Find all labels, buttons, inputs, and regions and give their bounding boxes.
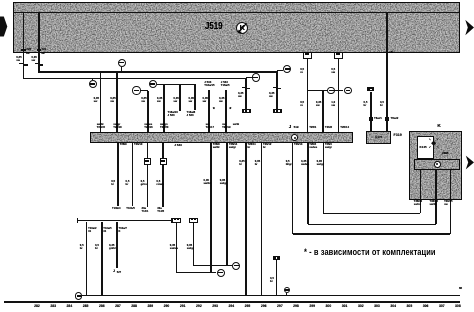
splice A186	[327, 87, 335, 95]
wire color label	[41, 53, 44, 56]
connector T6w/2	[385, 117, 389, 121]
wire from J519 to bus A	[38, 53, 40, 72]
wire T26 to connector	[162, 143, 164, 158]
pin label T6w/1	[374, 117, 382, 120]
splice B136	[344, 87, 352, 95]
fuse SB9	[334, 52, 343, 59]
wire cluster T36/12	[420, 170, 422, 214]
stub to splice B397	[121, 67, 122, 72]
pin label T26/19	[222, 124, 230, 130]
bus wire A (15a)	[38, 71, 278, 73]
label T16a/10 J533	[168, 111, 178, 117]
wire gauge label	[203, 97, 208, 103]
wire gauge label	[141, 97, 146, 103]
label J285	[442, 152, 449, 155]
wire gauge label	[286, 160, 292, 166]
wire to T26/2	[322, 90, 324, 132]
wire T10a/2 to ground	[86, 222, 88, 296]
pin label T26/10	[134, 144, 142, 147]
footnote	[304, 247, 436, 257]
wire T26/4 down	[307, 143, 309, 224]
pin label T26/9	[120, 144, 127, 147]
asterisk	[229, 108, 231, 114]
bracket label	[174, 218, 176, 221]
wire gauge label	[110, 97, 115, 103]
warning lamp K145 box	[417, 136, 434, 159]
wire gauge label	[219, 97, 224, 103]
wire A176 to J533	[179, 84, 181, 110]
splice B406	[89, 80, 97, 88]
wire gauge label	[300, 101, 304, 107]
wire J533 to T26/19	[225, 90, 227, 133]
wire gauge label	[204, 179, 211, 185]
pin label T26/18	[113, 124, 121, 130]
terminal label 1N	[389, 51, 393, 54]
wire gauge label	[270, 277, 274, 283]
wire gauge label	[156, 180, 163, 186]
wire T10a/7 to J527	[116, 222, 118, 268]
wire to T26/14	[338, 90, 340, 132]
wire gauge label	[187, 244, 194, 250]
connector C2	[172, 218, 181, 223]
wire J533 to T26/17	[208, 90, 210, 133]
splice B397 at bus A end	[283, 65, 291, 73]
wire to splice B390	[194, 265, 233, 266]
wire cluster T36/15	[450, 170, 452, 234]
wire down	[162, 165, 164, 207]
wire gauge label	[380, 101, 384, 107]
label T16a/8 J533	[187, 111, 196, 117]
pin label T26/14	[229, 144, 237, 150]
ground connection 44	[284, 287, 291, 294]
splice A170	[132, 86, 140, 94]
asterisk	[213, 108, 215, 114]
wire gauge label	[141, 180, 147, 186]
wire bus B end down	[245, 78, 247, 109]
connector on wire	[242, 87, 246, 88]
wire from A176	[157, 84, 196, 85]
wire gauge label	[300, 68, 304, 74]
current track numbers	[0, 304, 474, 309]
wire fuse SB9 down	[338, 59, 340, 91]
wire gauge label	[238, 92, 243, 98]
wire gauge label	[255, 160, 260, 166]
ground stub	[286, 293, 287, 295]
wire to splice B383	[176, 223, 178, 273]
connector T2	[273, 256, 281, 260]
connector T10k	[273, 109, 282, 113]
wire T26 to connector	[147, 143, 149, 158]
wire to cluster T36/12	[323, 213, 420, 215]
wire gauge label	[239, 160, 244, 166]
connector on wire	[35, 63, 39, 64]
wire gauge label	[269, 92, 274, 98]
connector C15	[160, 158, 168, 165]
wire T26/11 to ground	[245, 143, 247, 296]
wire gauge label	[301, 160, 309, 166]
wire to ground	[276, 260, 278, 296]
wire to cluster T36/15	[293, 233, 451, 235]
instrument cluster K box	[409, 131, 462, 200]
stub to splice	[246, 77, 252, 78]
wire bus A end down	[276, 72, 278, 109]
pin label T26/16	[144, 124, 152, 130]
wire to splice B383	[177, 272, 217, 273]
wire gauge label	[157, 97, 162, 103]
pin label T10a/5	[103, 228, 111, 234]
wire gauge label	[80, 244, 84, 250]
wire T26/9 down	[117, 143, 119, 206]
label 30a T14/5	[157, 208, 164, 214]
wire gauge label	[331, 68, 335, 74]
ground wire label	[459, 287, 462, 290]
pin label T26/15	[97, 124, 105, 130]
cluster control unit J285 bar	[414, 159, 461, 170]
wire gauge label	[331, 101, 335, 107]
splice B397	[118, 59, 126, 67]
wire fuse SB8 down	[307, 59, 309, 91]
wire inside J519 from bus to terminal (right)	[386, 13, 388, 52]
label J533 T16a/5	[221, 81, 230, 87]
wire bus to T26/18	[116, 72, 118, 133]
wire T26/13 down	[292, 143, 294, 234]
connector T6w/1	[369, 117, 373, 121]
pin label T26/8	[213, 144, 220, 150]
wire from A170	[141, 90, 148, 91]
terminal label	[42, 49, 46, 52]
control unit J519 main box	[13, 2, 460, 53]
pin label T26/12	[263, 144, 271, 150]
wire gauge label	[126, 180, 130, 186]
connector bar T26 of J519	[90, 132, 353, 143]
splice A176	[149, 80, 157, 88]
connector T10k	[242, 109, 251, 113]
pin label T26/1	[309, 126, 316, 129]
pin label T26/11	[248, 144, 256, 150]
label J533 at bar	[174, 144, 182, 147]
stub to splice	[277, 70, 283, 71]
label K145	[420, 146, 427, 149]
connector on wire	[19, 63, 23, 64]
pin label T10a/2	[88, 228, 96, 234]
bottom rule	[4, 301, 460, 303]
terminal mark	[21, 49, 25, 51]
wire gauge label	[220, 179, 227, 185]
wire color label	[26, 53, 29, 56]
pin label T26/2	[325, 126, 332, 129]
connector junction bracket	[78, 220, 172, 221]
terminal label	[27, 49, 31, 52]
wire gauge label	[173, 97, 178, 103]
wire gauge label	[111, 180, 115, 186]
terminal mark	[37, 49, 41, 51]
wire gauge label	[109, 244, 116, 250]
pin label T36/15	[444, 201, 452, 207]
diagnosis symbol K circle	[236, 22, 248, 34]
label K	[437, 124, 440, 129]
pin label T26/14	[340, 126, 349, 129]
wire bus to T26/15	[100, 72, 102, 133]
wire to cluster T36/13	[308, 224, 436, 226]
connector T4c	[367, 87, 374, 91]
wire gauge label	[316, 101, 321, 107]
ground wire bottom	[82, 295, 460, 296]
symbol in bar	[291, 134, 298, 141]
label T10b/4	[112, 208, 121, 211]
splice B406 at bus B end	[252, 73, 260, 81]
pin label T10a/7	[119, 228, 127, 234]
wire gauge label	[95, 244, 99, 250]
label 30a T14/1	[142, 208, 149, 214]
splice B390	[232, 262, 240, 270]
pin label T26/17	[206, 124, 214, 130]
wire T4c to G476	[370, 92, 372, 132]
wire gauge label	[317, 160, 324, 166]
wire inside J519 from bus to terminal	[38, 13, 40, 52]
label F319	[394, 134, 402, 138]
wire T26/8 down (thick)	[210, 143, 213, 272]
pin label T26/13	[294, 144, 302, 147]
wire cluster T36/13	[435, 170, 437, 225]
wire A176 to T26/20	[163, 84, 165, 132]
bus wire B (58d)	[23, 78, 247, 80]
bus bar separator line	[13, 12, 460, 13]
label J519	[205, 21, 223, 32]
wire T26/10 down	[132, 143, 134, 206]
wire gauge label	[170, 244, 178, 250]
wire gauge label	[94, 97, 99, 103]
wire gauge label	[364, 101, 368, 107]
label J527	[113, 270, 115, 274]
wire T10a/5 to ground	[101, 222, 103, 296]
stub to splice B406	[92, 78, 93, 80]
wire J519 to G476	[386, 53, 388, 132]
wire gauge label	[16, 56, 21, 62]
wire T26/14 down (thick)	[226, 143, 229, 265]
wire down	[147, 165, 149, 207]
symbol in J285 bar	[434, 161, 441, 168]
switch G476 box	[366, 131, 390, 144]
pin label T36/12	[414, 201, 422, 207]
fuse SB8	[303, 52, 312, 59]
label T10b/5	[126, 208, 135, 211]
pin label T36/13	[430, 201, 438, 207]
wire A170 to T26/16	[147, 91, 149, 133]
wire A176 to J533	[194, 84, 196, 110]
connector on wire	[273, 87, 277, 88]
pin label T26/3	[325, 144, 332, 150]
splice B383	[217, 269, 225, 277]
label J533 T16a/15	[204, 81, 214, 87]
pin label T6w/2	[391, 117, 399, 120]
wire T26/12 to ground	[261, 143, 263, 296]
wire gauge label	[189, 97, 194, 103]
wire gauge label	[31, 56, 36, 62]
connector C14	[144, 158, 152, 165]
pin label T26/20	[160, 124, 168, 130]
pin label T26/4	[309, 144, 317, 150]
wire T26/3 down	[323, 143, 325, 213]
wire from J519 to bus B	[23, 53, 25, 79]
wire inside J519 from bus to terminal	[23, 13, 25, 52]
wire to T26/1	[307, 90, 309, 132]
ground connection 44	[75, 292, 82, 299]
connector C3	[189, 218, 198, 223]
junction wire	[308, 90, 343, 91]
wire to splice B390	[193, 223, 195, 266]
label J519 at bar	[289, 124, 292, 129]
wire color label	[233, 124, 239, 127]
